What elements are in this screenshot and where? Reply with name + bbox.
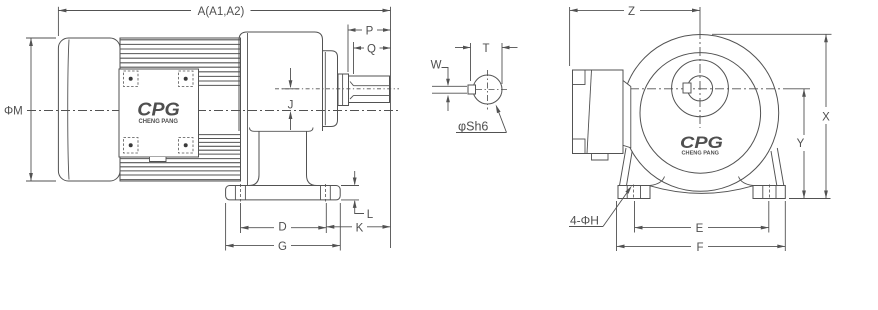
- dim Z: [569, 7, 571, 66]
- shaft circle (front): [687, 76, 712, 101]
- bolt pad top-right: [179, 71, 194, 87]
- gearbox hub circle (front): [672, 60, 729, 117]
- gearbox pedestal: [249, 131, 259, 185]
- base plate (side view): [226, 186, 341, 200]
- base inner lines: [234, 186, 236, 200]
- svg-text:ΦM: ΦM: [4, 106, 23, 118]
- dim G: [225, 203, 227, 251]
- dim E: [634, 201, 636, 233]
- gearbox bottom edge: [250, 128, 314, 132]
- gearbox body: [239, 32, 323, 131]
- left foot bolt centerline: [633, 185, 635, 200]
- terminal box bottom tab: [592, 154, 609, 161]
- shaft keyway slot: [350, 82, 390, 100]
- gearbox flange joint: [247, 33, 249, 185]
- svg-text:A(A1,A2): A(A1,A2): [198, 6, 245, 18]
- svg-text:Q: Q: [367, 44, 376, 56]
- web sag curve: [650, 186, 753, 194]
- dim K: [326, 226, 352, 228]
- svg-text:CHENG PANG: CHENG PANG: [682, 150, 720, 156]
- svg-text:4-ΦH: 4-ΦH: [570, 214, 599, 228]
- box-to-motor adapter: [623, 81, 631, 148]
- motor outer circle (front): [622, 35, 779, 192]
- right fillet: [739, 177, 754, 186]
- bolt pad bottom-left: [124, 138, 139, 154]
- dim J: [290, 68, 292, 87]
- terminal box lug bottom: [573, 139, 586, 154]
- wire output shaft centerline (side view): [275, 88, 399, 90]
- svg-text:X: X: [822, 112, 830, 124]
- nameplate bottom tab: [150, 157, 167, 162]
- svg-text:CHENG PANG: CHENG PANG: [139, 119, 179, 125]
- horizontal centerline (front): [630, 88, 791, 90]
- terminal box: [573, 70, 624, 154]
- output shaft: [349, 76, 390, 103]
- dim Q: [353, 42, 355, 74]
- output housing cover: [323, 51, 338, 127]
- svg-text:K: K: [356, 222, 364, 234]
- gearbox bell circle (front): [640, 53, 761, 174]
- motor end cap: [58, 38, 120, 181]
- motor body outline: [120, 38, 241, 181]
- bearing boss: [338, 74, 349, 106]
- dim L: [341, 185, 359, 187]
- section crosshair: [487, 70, 489, 110]
- key (section): [468, 85, 476, 94]
- svg-text:W: W: [431, 60, 442, 72]
- terminal box lid seam: [587, 70, 592, 154]
- terminal box lug top: [573, 70, 586, 85]
- bolt hole centerlines (base): [240, 184, 242, 202]
- svg-text:CPG: CPG: [680, 133, 723, 152]
- dim Y: [791, 88, 810, 90]
- right foot: [753, 186, 785, 199]
- dim A(A1,A2): [57, 7, 59, 36]
- dim D: [240, 203, 242, 233]
- nameplate: [119, 69, 199, 157]
- svg-text:Z: Z: [628, 6, 635, 18]
- dim W: [432, 85, 467, 87]
- svg-text:Y: Y: [797, 138, 805, 150]
- svg-text:J: J: [288, 100, 294, 112]
- dim T: [470, 43, 472, 81]
- wire motor centerline (side view): [27, 110, 400, 112]
- left fillet: [650, 177, 665, 186]
- cooling fins: [120, 40, 241, 180]
- bolt pad bottom-right: [179, 138, 194, 154]
- svg-text:L: L: [367, 209, 374, 221]
- svg-text:φSh6: φSh6: [458, 120, 488, 134]
- svg-text:T: T: [482, 43, 489, 55]
- bolt pad top-left: [124, 71, 139, 87]
- svg-text:G: G: [278, 241, 287, 253]
- left foot: [618, 186, 650, 199]
- svg-text:D: D: [278, 222, 286, 234]
- svg-text:E: E: [696, 223, 704, 235]
- dim P: [347, 25, 349, 73]
- vertical centerline (front): [699, 7, 701, 30]
- svg-text:P: P: [366, 26, 374, 38]
- svg-text:CPG: CPG: [137, 100, 180, 120]
- shaft section circle: [473, 75, 502, 104]
- key (front): [683, 83, 691, 93]
- svg-text:F: F: [696, 242, 703, 254]
- dim F: [616, 201, 618, 251]
- left leg: [620, 148, 633, 186]
- dim X: [712, 33, 832, 35]
- dim PhiM: [26, 37, 56, 39]
- right leg: [771, 148, 784, 186]
- right foot bolt centerline: [769, 185, 771, 200]
